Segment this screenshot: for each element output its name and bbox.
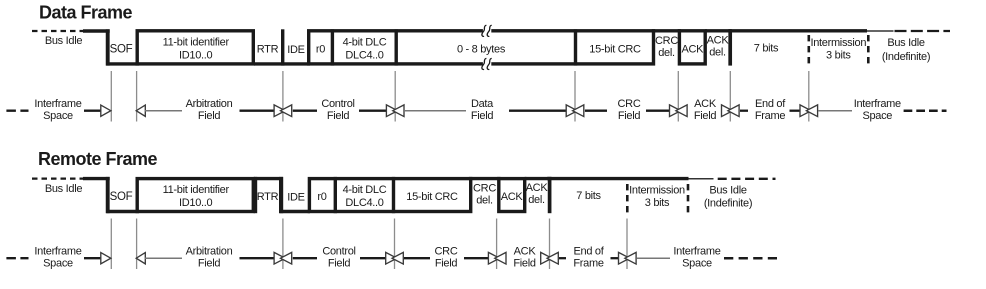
bowtie at interframe boundary: [619, 252, 630, 264]
svg-text:Intermission: Intermission: [810, 37, 866, 49]
arrow shaft: [293, 257, 317, 259]
svg-text:3 bits: 3 bits: [645, 197, 670, 209]
separator line at control start: [282, 71, 284, 122]
wire: CRC delimiter recessive high rail: [469, 177, 501, 180]
svg-text:CRC: CRC: [473, 183, 496, 195]
svg-text:ACK: ACK: [501, 191, 524, 203]
svg-text:Field: Field: [327, 110, 350, 122]
svg-text:IDE: IDE: [287, 44, 304, 56]
separator line at EOF start: [549, 219, 551, 270]
separator line at SOF start: [110, 219, 112, 270]
svg-text:Space: Space: [43, 110, 73, 122]
wire: thin high rail after EOF: [689, 178, 714, 180]
field box: ACK slot: [679, 31, 705, 64]
svg-text:Frame: Frame: [755, 110, 785, 122]
wire: EOF boundary tick: [548, 177, 552, 213]
svg-text:r0: r0: [317, 191, 326, 203]
svg-text:End of: End of: [755, 98, 786, 110]
divider DLC | data: [395, 29, 398, 65]
intermission right dashed boundary: [867, 35, 870, 64]
svg-text:ACK: ACK: [526, 182, 549, 194]
svg-text:Control: Control: [321, 98, 354, 110]
dashed lead-in left: [6, 109, 28, 111]
svg-text:DLC4..0: DLC4..0: [345, 50, 383, 62]
arrow shaft: [585, 110, 607, 112]
wire: SOF dominant low rail: [106, 62, 139, 65]
separator line at interframe start: [626, 219, 628, 270]
arrow shaft: [740, 110, 748, 112]
arrow shaft: [559, 257, 566, 259]
field box: 11-bit identifier: [137, 179, 253, 212]
intermission right dashed boundary: [687, 184, 690, 213]
svg-text:ACK: ACK: [514, 246, 537, 258]
arrow shaft: [611, 257, 619, 259]
svg-text:Space: Space: [862, 110, 892, 122]
svg-text:Field: Field: [513, 258, 536, 270]
bowtie at EOF boundary: [541, 252, 552, 264]
svg-text:Arbitration: Arbitration: [186, 98, 233, 110]
svg-text:Frame: Frame: [573, 258, 603, 270]
svg-text:Remote Frame: Remote Frame: [38, 149, 158, 169]
svg-text:del.: del.: [709, 47, 726, 59]
wire: bus idle solid high rail: [83, 177, 110, 180]
wire: RTR/IDE falling edge: [279, 177, 283, 213]
svg-text:Interframe: Interframe: [673, 246, 720, 258]
svg-text:ACK: ACK: [707, 35, 730, 47]
svg-text:del.: del.: [528, 194, 545, 206]
svg-text:ACK: ACK: [681, 44, 704, 56]
arrow shaft: [84, 110, 102, 112]
wire: bus idle dashed rail right: [718, 178, 776, 180]
svg-text:Interframe: Interframe: [34, 98, 81, 110]
divider r0 | DLC: [334, 177, 337, 213]
wire: SOF falling edge: [106, 29, 110, 65]
arrow shaft: [509, 110, 566, 112]
svg-text:4-bit DLC: 4-bit DLC: [343, 184, 387, 196]
svg-text:ID10..0: ID10..0: [179, 197, 213, 209]
wire: bus idle solid high rail: [83, 29, 110, 32]
svg-text:r0: r0: [316, 44, 325, 56]
bowtie at CRC boundary: [386, 252, 397, 264]
intermission left dashed boundary: [807, 35, 810, 64]
arrow shaft gray: [145, 110, 183, 112]
bowtie at EOF boundary: [722, 105, 733, 117]
svg-text:Bus Idle: Bus Idle: [45, 183, 83, 195]
svg-text:Field: Field: [198, 110, 221, 122]
wire: CRC delimiter recessive high rail: [652, 29, 681, 32]
wire: bus idle dashed high rail: [32, 30, 84, 32]
divider data | CRC: [574, 29, 577, 65]
arrow shaft: [464, 257, 489, 259]
svg-text:Data Frame: Data Frame: [39, 2, 133, 22]
separator line at data start: [394, 71, 396, 122]
wire: SOF dominant low rail: [106, 210, 139, 213]
wire: ACK delimiter recessive high rail: [705, 29, 731, 32]
bowtie at ACK boundary: [488, 252, 499, 264]
svg-text:Control: Control: [322, 246, 355, 258]
svg-text:CRC: CRC: [618, 98, 641, 110]
dashed lead-out right: [724, 257, 777, 260]
svg-text:Data: Data: [471, 98, 494, 110]
wire: end of frame recessive high rail: [547, 177, 689, 180]
separator line at arbitration start: [136, 71, 138, 122]
svg-text:Interframe: Interframe: [34, 246, 81, 258]
separator line at ACK start: [496, 219, 498, 270]
wire: RTR recessive high rail: [254, 177, 283, 180]
separator line at arbitration start: [136, 219, 138, 270]
svg-text:RTR: RTR: [257, 44, 279, 56]
arrow shaft gray: [145, 257, 183, 259]
svg-text:DLC4..0: DLC4..0: [345, 197, 383, 209]
arrow shaft: [646, 110, 669, 112]
divider r0 | DLC: [331, 29, 334, 65]
bowtie at control boundary: [274, 105, 285, 117]
svg-text:15-bit CRC: 15-bit CRC: [589, 44, 641, 56]
dashed lead-out right: [904, 109, 947, 112]
separator line at ACK start: [677, 71, 679, 122]
arrow shaft: [360, 257, 386, 259]
arrow shaft: [84, 257, 102, 259]
arrow shaft: [790, 110, 801, 112]
separator line at SOF start: [110, 71, 112, 122]
arrow shaft: [359, 110, 386, 112]
bowtie at interframe boundary: [800, 105, 811, 117]
svg-text:Field: Field: [618, 110, 641, 122]
svg-text:Field: Field: [471, 110, 494, 122]
bowtie at CRC boundary: [566, 105, 577, 117]
svg-text:(Indefinite): (Indefinite): [704, 198, 752, 210]
svg-text:Field: Field: [694, 110, 717, 122]
svg-text:del.: del.: [658, 47, 675, 59]
field box: control + CRC (r0 | 4-bit DLC | 15-bit CRC): [309, 179, 470, 212]
wire: bus idle dashed rail right: [895, 30, 951, 32]
divider DLC | CRC: [392, 177, 395, 213]
svg-text:del.: del.: [476, 195, 493, 207]
bowtie at data boundary: [386, 105, 397, 117]
arrow shaft gray: [405, 110, 466, 112]
svg-text:Field: Field: [328, 258, 351, 270]
wire: thin high rail after EOF: [867, 30, 894, 32]
svg-text:Intermission: Intermission: [629, 185, 685, 197]
wire: bus idle dashed high rail: [32, 178, 84, 180]
separator line at CRC start: [574, 71, 576, 122]
svg-text:(Indefinite): (Indefinite): [882, 51, 930, 63]
svg-text:Bus Idle: Bus Idle: [887, 37, 925, 49]
svg-text:4-bit DLC: 4-bit DLC: [343, 37, 387, 49]
wire: IDE dominant low rail: [280, 210, 310, 213]
separator line at EOF start: [729, 71, 731, 122]
field box: ACK slot: [499, 179, 525, 212]
arrow shaft gray: [637, 257, 670, 259]
wire: RTR rising edge at identifier box: [254, 177, 258, 213]
svg-text:Arbitration: Arbitration: [186, 246, 233, 258]
svg-text:11-bit identifier: 11-bit identifier: [163, 184, 230, 196]
svg-text:CRC: CRC: [655, 35, 678, 47]
intermission left dashed boundary: [626, 184, 629, 213]
wire: SOF falling edge: [106, 177, 110, 213]
svg-text:ACK: ACK: [694, 98, 717, 110]
svg-text:Space: Space: [682, 258, 712, 270]
wire: EOF boundary tick: [728, 29, 732, 65]
break squiggle bottom: [482, 58, 492, 69]
svg-text:11-bit identifier: 11-bit identifier: [163, 37, 230, 49]
wire: RTR/IDE bit boundary tick: [281, 29, 284, 65]
separator line at control start: [282, 219, 284, 270]
arrow shaft: [240, 257, 275, 259]
arrow shaft: [293, 110, 317, 112]
arrowhead right at SOF: [101, 253, 111, 264]
svg-text:Space: Space: [43, 258, 73, 270]
svg-text:15-bit CRC: 15-bit CRC: [406, 191, 458, 203]
svg-text:ID10..0: ID10..0: [179, 50, 213, 62]
field box: 11-bit identifier: [137, 31, 253, 64]
svg-text:3 bits: 3 bits: [826, 50, 851, 62]
svg-text:SOF: SOF: [110, 191, 133, 203]
svg-text:7 bits: 7 bits: [754, 43, 779, 55]
bowtie at control boundary: [274, 252, 285, 264]
svg-text:0 - 8 bytes: 0 - 8 bytes: [457, 44, 506, 56]
svg-text:End of: End of: [573, 246, 604, 258]
wire: ACK delimiter recessive high rail: [525, 177, 552, 180]
svg-text:Field: Field: [435, 258, 458, 270]
wire: end of frame recessive high rail: [729, 29, 868, 32]
arrow shaft: [240, 110, 275, 112]
svg-text:RTR: RTR: [257, 191, 279, 203]
svg-text:Bus Idle: Bus Idle: [45, 35, 83, 47]
dashed lead-in left: [6, 257, 28, 259]
field box: control + data + CRC (r0 | 4-bit DLC | 0-8 bytes | 15-bit CRC): [309, 31, 654, 64]
arrowhead left at arbitration: [136, 253, 145, 264]
separator line at CRC start: [394, 219, 396, 270]
svg-text:Field: Field: [198, 258, 221, 270]
break squiggle top: [482, 25, 492, 36]
svg-text:7 bits: 7 bits: [576, 190, 601, 202]
svg-text:CRC: CRC: [435, 246, 458, 258]
svg-text:SOF: SOF: [110, 43, 133, 55]
arrowhead right at SOF: [101, 105, 111, 116]
svg-text:Bus Idle: Bus Idle: [709, 185, 747, 197]
svg-text:Interframe: Interframe: [854, 98, 901, 110]
bowtie at ACK boundary: [670, 105, 681, 117]
arrowhead left at arbitration: [136, 105, 145, 116]
separator line at interframe start: [808, 71, 810, 122]
arrow shaft gray: [818, 110, 852, 112]
svg-text:IDE: IDE: [287, 192, 304, 204]
arrow shaft: [404, 257, 430, 259]
wire: RTR/IDE dominant low rail: [254, 62, 310, 65]
